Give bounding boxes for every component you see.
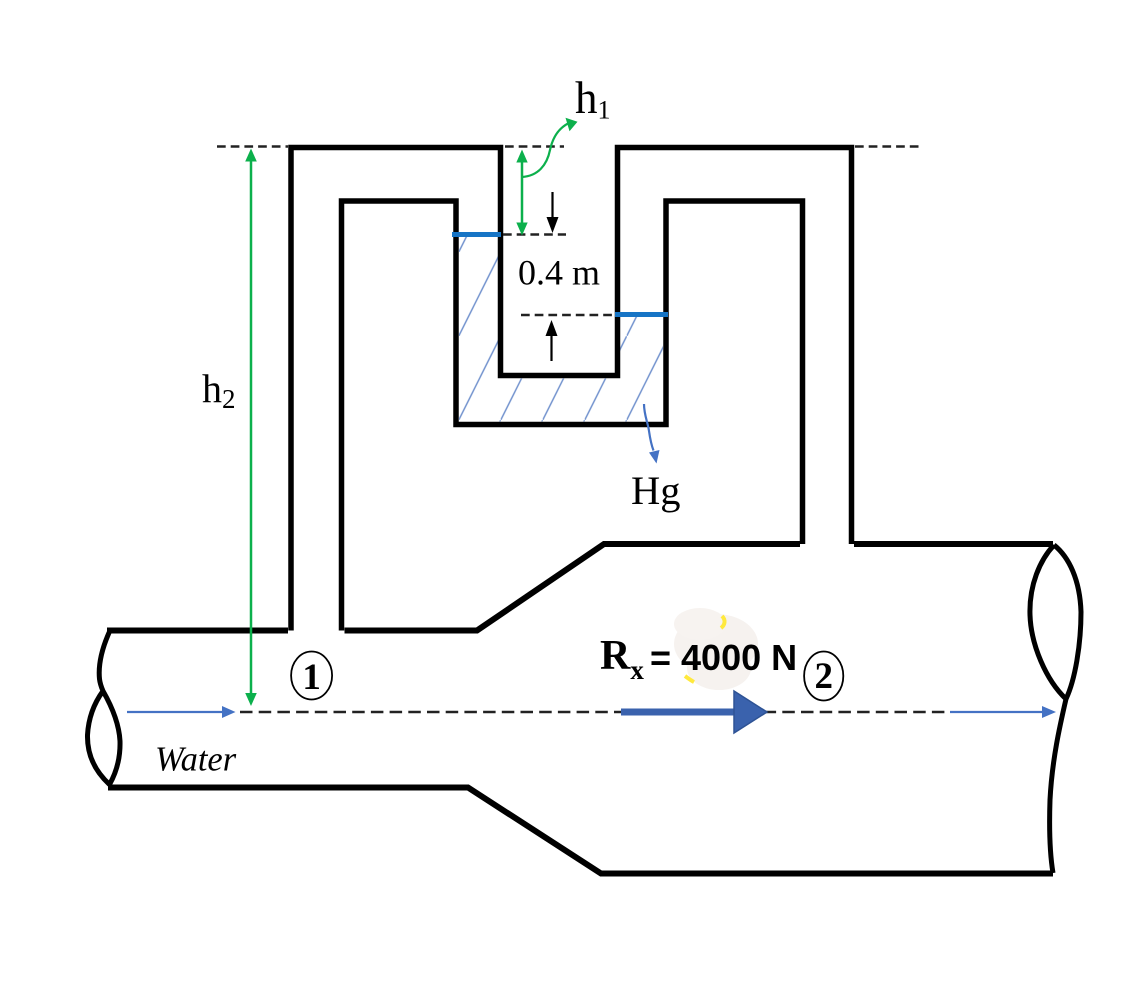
pipe top outline	[107, 628, 288, 634]
dashed line at right mercury level	[521, 314, 614, 317]
svg-text:0.4 m: 0.4 m	[518, 253, 600, 293]
svg-text:Water: Water	[155, 741, 237, 779]
leader curve to h1 label (green)	[522, 118, 578, 177]
datum dashed line top left	[217, 145, 288, 148]
dimension arrow h2 (green)	[245, 149, 257, 707]
highlight smudge behind Rx text	[674, 608, 758, 690]
svg-text:2: 2	[814, 656, 833, 697]
mercury level left (blue)	[452, 232, 501, 237]
mercury hatch region	[459, 236, 663, 422]
datum dashed line top middle	[505, 145, 564, 148]
svg-text:h1: h1	[575, 73, 611, 125]
pipe left broken end	[87, 631, 120, 785]
svg-text:Hg: Hg	[631, 468, 681, 513]
datum dashed line top right	[855, 145, 920, 148]
svg-text:Rx: Rx	[600, 633, 644, 685]
node 2 circled	[804, 652, 843, 701]
flow arrow right (blue)	[950, 706, 1056, 718]
yellow highlighter mark upper	[721, 616, 725, 628]
yellow highlighter mark lower	[685, 676, 694, 682]
manometer tube outer wall	[291, 148, 852, 631]
svg-text:= 4000 N: = 4000 N	[650, 637, 797, 678]
mercury level right (blue)	[615, 312, 668, 317]
dashed line at left mercury level	[503, 233, 566, 236]
pipe bottom outline	[108, 788, 1053, 874]
node 1 circled	[291, 652, 332, 700]
pipe right broken end	[1030, 545, 1081, 873]
arrow down to left mercury level (black)	[547, 192, 559, 233]
force arrow Rx (big blue)	[621, 691, 767, 733]
svg-text:h2: h2	[202, 366, 236, 414]
leader arrow to Hg label (blue)	[644, 404, 660, 464]
label Rx = 4000 N	[600, 633, 797, 685]
manometer tube inner wall	[342, 201, 803, 631]
dimension arrow h1 (green)	[516, 150, 527, 236]
pipe centerline dashed	[240, 711, 945, 713]
svg-text:1: 1	[302, 657, 321, 698]
flow arrow left (blue)	[127, 706, 236, 718]
arrow up to right mercury level (black)	[546, 320, 558, 361]
